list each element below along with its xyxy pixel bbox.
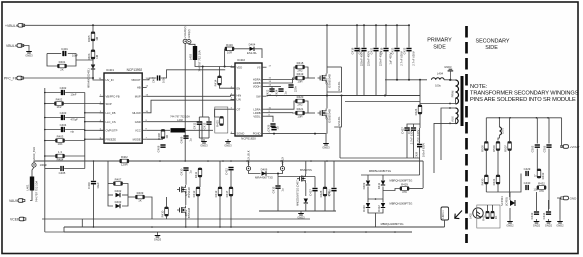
svg-text:GND2: GND2: [545, 223, 553, 227]
svg-text:C433: C433: [530, 212, 534, 219]
capacitor C425: [402, 47, 415, 66]
wire AUX top lead: [450, 107, 456, 109]
wire R416 left down: [224, 49, 226, 67]
svg-text:10nF: 10nF: [71, 93, 77, 97]
wire caps gnd join: [199, 137, 209, 139]
wire aux cluster right2: [122, 194, 128, 196]
svg-text:D409: D409: [362, 182, 366, 189]
svg-text:C415: C415: [271, 186, 275, 193]
svg-text:1M: 1M: [95, 54, 99, 59]
capacitor C419: [379, 47, 392, 64]
capacitor C416: [327, 189, 336, 196]
wire D406 to +VAUX: [266, 171, 283, 174]
wire R409 right: [145, 197, 153, 219]
svg-text:R409: R409: [137, 191, 144, 195]
wire rail to terminal: [248, 161, 250, 166]
wire sense caps top: [407, 124, 420, 127]
wire C434 up: [548, 200, 550, 211]
svg-text:470pF: 470pF: [71, 118, 79, 122]
svg-text:C411: C411: [193, 122, 197, 129]
svg-text:1u: 1u: [281, 188, 285, 192]
svg-text:C401: C401: [61, 47, 68, 51]
junction rails: [93, 226, 396, 233]
wire C421 down: [375, 52, 377, 96]
wire PRIM bottom to sense: [420, 103, 450, 105]
svg-text:C421: C421: [369, 47, 373, 54]
capacitor C412: [224, 168, 233, 175]
svg-text:744 797 752 10A: 744 797 752 10A: [35, 181, 39, 202]
wire R420 out: [305, 101, 309, 113]
svg-text:C429: C429: [524, 167, 531, 171]
svg-text:R405: R405: [87, 35, 91, 42]
svg-text:R403: R403: [57, 135, 64, 139]
ground GND3 above L404: [444, 65, 453, 80]
svg-text:1K: 1K: [494, 216, 498, 220]
capacitor C426: [266, 124, 279, 131]
svg-text:D412: D412: [377, 205, 381, 212]
svg-text:L501: L501: [501, 128, 505, 134]
svg-text:744 797 752 10A: 744 797 752 10A: [170, 115, 190, 119]
capacitor C411: [193, 122, 202, 129]
wire R507 up: [509, 118, 511, 141]
svg-text:C404: C404: [60, 123, 67, 127]
wire C506 up: [548, 118, 550, 144]
wire R402 right to IC: [64, 103, 105, 105]
wire C506 down: [548, 149, 550, 210]
transistor Q401 BSS138: [177, 185, 191, 198]
svg-text:GND3: GND3: [200, 143, 208, 147]
svg-text:C410: C410: [179, 168, 183, 175]
svg-text:VBULK: VBULK: [6, 44, 18, 48]
svg-text:C505: C505: [531, 145, 535, 152]
capacitor C420: [271, 128, 276, 130]
resistor R408: [157, 130, 169, 140]
svg-text:R418: R418: [297, 61, 304, 65]
resistor R507: [504, 142, 512, 152]
svg-text:VDDH: VDDH: [253, 85, 261, 89]
wire Q406 source: [305, 183, 307, 196]
resistor R406: [87, 50, 99, 60]
svg-text:+VOUT: +VOUT: [570, 145, 580, 149]
label MBR5H1008FT3G top: [369, 169, 391, 173]
op-amp IC401 NCP13992 LLC controller: [100, 68, 147, 143]
wire R416-D404: [234, 48, 250, 50]
ground GND3 below C411: [200, 139, 208, 147]
svg-text:C406: C406: [87, 182, 91, 189]
svg-text:C409: C409: [179, 136, 183, 143]
wire C404 right: [65, 129, 85, 131]
junction PFC_FB divider: [92, 77, 94, 79]
wire L401 to VAUX_BLK term: [32, 167, 34, 176]
wire VDDL to C426: [267, 116, 274, 122]
svg-text:C426: C426: [266, 124, 270, 131]
svg-text:L403: L403: [189, 53, 193, 60]
wire GND conn left: [557, 198, 560, 219]
label C403 value: [71, 118, 79, 122]
wire sense caps top2: [413, 124, 415, 127]
wire PFC_FB: [22, 77, 93, 79]
svg-text:OVP/OTP: OVP/OTP: [106, 128, 118, 132]
wire C418 down: [356, 52, 358, 96]
wire upper sense rail: [340, 157, 420, 159]
svg-text:R412: R412: [192, 190, 196, 197]
terminal +VAUX_BLK 2: [246, 150, 250, 170]
zener D407: [304, 199, 308, 204]
wire MODE to R408: [147, 138, 163, 140]
resistor R419: [296, 72, 305, 83]
svg-text:10R: 10R: [297, 115, 302, 119]
wire IC401 GND down: [147, 122, 202, 141]
wire cap bank drop 5: [396, 25, 398, 47]
wire SR diodes mid: [368, 187, 383, 200]
svg-text:+VBULK: +VBULK: [5, 24, 19, 28]
transformer primary winding PRIM: [451, 80, 459, 104]
capacitor C418: [350, 47, 363, 66]
wire VCEE drop to rail: [81, 219, 83, 227]
wire mid ground rail: [259, 210, 336, 212]
wire cap bank drop 3: [375, 25, 377, 47]
svg-text:C430: C430: [524, 181, 531, 185]
ground GND3 below PGND: [322, 141, 330, 149]
label D406b ES1JFL: [337, 116, 341, 126]
svg-text:NCP13992: NCP13992: [127, 68, 143, 72]
svg-text:2R2: 2R2: [297, 103, 303, 107]
svg-text:MBRQH1008FT3G: MBRQH1008FT3G: [390, 202, 413, 206]
wire AUX bottom lead: [450, 119, 456, 124]
wire C417 v: [314, 177, 316, 188]
wire SW node rail: [267, 95, 420, 97]
label MRA4007(D401): [87, 68, 91, 88]
label MBRQH1008FT3G 3: [381, 222, 404, 226]
svg-text:1u: 1u: [189, 170, 193, 174]
svg-text:HDRB: HDRB: [253, 81, 261, 85]
diode D401 MRA4007: [91, 65, 95, 70]
svg-text:C419: C419: [379, 47, 383, 54]
pin numbers IC401: [99, 78, 149, 139]
svg-text:GND3: GND3: [154, 237, 162, 241]
svg-text:ES1JFL: ES1JFL: [337, 116, 341, 126]
svg-text:R413: R413: [214, 190, 218, 197]
resistor R433b: [537, 169, 545, 179]
wire sec top rail: [486, 117, 561, 119]
junction D406 out: [277, 173, 279, 175]
capacitor C404: [60, 123, 67, 132]
resistor R413: [214, 187, 222, 197]
wire R418 out: [305, 67, 309, 78]
capacitor C505: [531, 145, 540, 152]
svg-text:R506: R506: [492, 145, 496, 152]
capacitor C407: [158, 75, 160, 80]
svg-text:GND(2): GND(2): [187, 29, 191, 38]
wire C413 bot: [208, 125, 210, 138]
svg-text:MLOW: MLOW: [132, 111, 141, 115]
wire C402 leads: [45, 92, 61, 94]
wire R404 left: [45, 155, 56, 157]
wire C402 right to bus2: [65, 92, 85, 94]
label MM3Z16VST1G D407: [297, 179, 300, 206]
svg-text:PRIM: PRIM: [451, 90, 455, 97]
wire rail to terminal 2: [282, 161, 284, 166]
wire D401 to HV_IN: [93, 70, 104, 80]
wire sense rail drop to SR: [419, 158, 421, 175]
svg-text:C428: C428: [407, 127, 411, 134]
wire R403 left: [45, 140, 56, 142]
resistor R410: [161, 207, 169, 217]
wire R428 down: [324, 196, 326, 211]
svg-text:SECONDARY: SECONDARY: [475, 38, 509, 44]
wire Q408 parallel branch: [334, 96, 341, 128]
svg-text:R429: R429: [401, 183, 408, 187]
wire VBOOT to C407: [147, 78, 157, 80]
wire C410 down: [185, 171, 187, 185]
wire Q401-Q402: [185, 195, 187, 206]
svg-text:MRA4007(D401): MRA4007(D401): [87, 68, 91, 88]
connector GND: [561, 196, 577, 200]
wire fb caps left bus: [520, 174, 522, 188]
capacitor C423: [390, 47, 403, 66]
svg-text:10K: 10K: [58, 142, 63, 146]
diode D406: [255, 167, 273, 179]
svg-text:GND3: GND3: [224, 143, 232, 147]
connector PFC_FB: [4, 76, 24, 80]
wire C425 down to res rail: [408, 52, 410, 80]
svg-text:MRA4007T3G: MRA4007T3G: [255, 176, 273, 180]
arrow at LIN01: [455, 211, 462, 219]
wire C406 down: [93, 185, 95, 228]
svg-text:SKIP: SKIP: [106, 102, 112, 106]
svg-text:R430: R430: [480, 178, 484, 185]
wire R417 down: [230, 196, 232, 227]
resistor R418: [296, 61, 305, 72]
wire SR diodes down2: [382, 199, 384, 203]
connector VCEE: [10, 217, 26, 221]
wire C407 right up: [161, 70, 225, 78]
transformer core: [461, 76, 464, 126]
wire SW rail to R424: [419, 80, 421, 105]
terminal GND(2): [187, 29, 191, 43]
svg-text:GND3: GND3: [322, 145, 330, 149]
svg-text:VDDL: VDDL: [253, 114, 261, 118]
resistor R407: [114, 178, 123, 186]
label D405 ES1JFL: [337, 81, 341, 91]
svg-text:GS66504B: GS66504B: [328, 74, 332, 88]
svg-text:GND: GND: [135, 120, 141, 124]
junction sec top: [499, 117, 549, 119]
svg-text:MODE: MODE: [133, 137, 141, 141]
wire rail to LIN01: [444, 220, 446, 227]
svg-text:GND3: GND3: [297, 215, 305, 219]
svg-text:VAUX: VAUX: [9, 199, 19, 203]
connector VAUX: [9, 199, 25, 203]
wire lower rail B: [64, 231, 412, 233]
wire R405 to R406: [92, 41, 94, 50]
wire R431 up: [497, 151, 499, 176]
svg-text:L404: L404: [437, 72, 444, 76]
wire C430 down: [363, 52, 365, 96]
wire Q407 source to SW: [326, 83, 328, 96]
transformer pin dots: [449, 79, 451, 124]
svg-text:R431: R431: [492, 178, 496, 185]
label C401 value 10nF: [72, 54, 78, 58]
wire C403 right: [65, 117, 85, 119]
svg-text:R417: R417: [225, 190, 229, 197]
svg-text:MM3Z16VST1G (D407): MM3Z16VST1G (D407): [297, 179, 300, 206]
wire C429s to rail: [419, 148, 421, 159]
label C429 value: [534, 174, 537, 178]
diode D412: [377, 203, 385, 212]
svg-text:GND3: GND3: [25, 53, 33, 57]
shunt regulator IC403 NCP431: [510, 197, 515, 206]
svg-text:10R: 10R: [227, 50, 232, 54]
wire R417 up: [230, 171, 232, 188]
ground GND2 a: [506, 219, 514, 227]
capacitor C408: [156, 145, 165, 152]
svg-text:220n: 220n: [294, 85, 298, 92]
svg-text:R416: R416: [226, 43, 233, 47]
wire aux rail drop to R429: [422, 161, 424, 188]
wire PGND rail: [267, 134, 327, 141]
svg-text:+VAUX_BLK: +VAUX_BLK: [247, 150, 251, 165]
resistor R414: [214, 76, 222, 86]
svg-text:R402: R402: [121, 155, 128, 159]
svg-text:1M: 1M: [95, 36, 99, 41]
svg-text:LDRA: LDRA: [253, 107, 260, 111]
svg-text:n/p: n/p: [71, 130, 75, 134]
svg-text:ES1JFL: ES1JFL: [337, 81, 341, 91]
capacitor C413: [202, 122, 211, 129]
wire C411 bot: [198, 125, 200, 138]
wire cap tops: [199, 116, 209, 118]
wire aux cluster left2: [108, 183, 113, 185]
svg-text:EN: EN: [237, 86, 241, 90]
wire R413 down: [219, 196, 221, 227]
ground GND2 d: [556, 219, 564, 227]
svg-text:C423: C423: [390, 47, 394, 54]
svg-text:VS: VS: [257, 65, 261, 69]
resistor R425 on aux rail: [120, 155, 129, 166]
inductor L403: [189, 46, 202, 72]
wire aux cluster right: [122, 184, 128, 207]
wire C413 top: [208, 117, 210, 121]
capacitor C428: [407, 127, 420, 145]
wire VDDH to caps: [267, 86, 282, 88]
wire R507 down: [509, 151, 511, 198]
capacitor C402: [60, 86, 67, 95]
wire SR diodes down: [367, 199, 369, 203]
svg-text:VCEE: VCEE: [10, 218, 20, 222]
wire R404 right: [65, 155, 85, 157]
wire R410 up: [166, 197, 168, 207]
inductor L401: [26, 177, 39, 203]
wire VBULK to ground: [21, 46, 29, 50]
connector VBULK: [6, 44, 24, 48]
svg-text:NCP431: NCP431: [500, 196, 504, 206]
svg-text:L401: L401: [26, 184, 30, 191]
wire VCC to L402: [147, 129, 170, 131]
svg-text:BSS138: BSS138: [187, 187, 191, 198]
svg-text:GND3: GND3: [444, 65, 452, 69]
capacitor C429 fb: [524, 167, 531, 176]
wire Q406 drain: [305, 161, 307, 174]
wire sec gnd bus: [509, 208, 511, 219]
coil L404: [432, 72, 445, 88]
wire R406 to D401: [92, 59, 94, 64]
wire AUX top down: [441, 108, 450, 160]
wire C406 up: [93, 161, 95, 181]
svg-text:2.7nF 630V: 2.7nF 630V: [412, 51, 416, 66]
svg-text:PGND: PGND: [253, 132, 261, 136]
capacitor C415: [271, 186, 284, 193]
resistor R404: [56, 150, 65, 161]
wire GND2 term to L403: [189, 44, 195, 46]
svg-text:C402: C402: [60, 86, 67, 90]
resistor R417: [225, 187, 233, 197]
svg-text:IC401: IC401: [106, 68, 114, 72]
diode D411: [377, 181, 385, 190]
junction gate net: [277, 173, 279, 175]
wire R424 down: [419, 114, 421, 128]
resistor R424: [414, 105, 422, 115]
svg-text:HB: HB: [137, 86, 141, 90]
svg-text:L402: L402: [177, 118, 183, 122]
connector +VBULK: [5, 24, 25, 28]
resistor R431: [492, 175, 500, 185]
wire SR diodes up2: [382, 175, 384, 180]
wire LDRA to R420: [267, 101, 296, 109]
wire Q408 source down: [326, 118, 328, 134]
wire gnd drop: [157, 232, 159, 233]
wire PFC_FB junction to divider: [92, 64, 94, 78]
svg-text:R407: R407: [115, 178, 122, 182]
label C429 100nF 630V: [415, 143, 426, 158]
wire bus2 to LLC_CS: [85, 121, 104, 123]
capacitor C427: [400, 127, 413, 145]
wire Q408 area vertical: [339, 127, 341, 158]
wire C417 down: [314, 192, 316, 212]
transistor Q402 BSS138: [177, 206, 191, 219]
wire C401-R401 right loop: [67, 54, 77, 67]
svg-text:U402: U402: [470, 213, 473, 219]
svg-text:R401: R401: [59, 60, 66, 64]
svg-text:NOTE:: NOTE:: [470, 84, 488, 90]
ground GND2 c: [545, 219, 553, 227]
svg-text:100nF 630V: 100nF 630V: [422, 143, 426, 157]
svg-text:OT: OT: [237, 107, 241, 111]
wire bus2 to FREEZE: [85, 138, 104, 140]
wire D404 right down: [254, 49, 262, 58]
svg-text:R507: R507: [504, 145, 508, 152]
resistor R438: [491, 211, 498, 219]
svg-text:BSS138: BSS138: [187, 207, 191, 218]
wire PRIM top lead: [450, 79, 456, 81]
wire L501 down: [498, 135, 499, 141]
svg-text:HV_IN: HV_IN: [106, 78, 114, 82]
wire L402 to caps: [186, 129, 214, 131]
svg-text:PRIMARY: PRIMARY: [427, 38, 452, 44]
svg-text:TRANSFORMER SECONDARY WINDINGS: TRANSFORMER SECONDARY WINDINGS: [470, 91, 579, 97]
svg-text:SW: SW: [256, 94, 261, 98]
diode D409: [362, 181, 370, 190]
wire R412 down: [197, 196, 199, 227]
wire OT pin down to R415 box: [215, 109, 231, 117]
capacitor C430: [357, 47, 370, 66]
svg-text:R432: R432: [538, 182, 545, 186]
capacitor C401: [61, 47, 68, 56]
terminal +VAUX: [280, 157, 284, 171]
diode D410: [362, 203, 370, 212]
svg-text:D411: D411: [377, 182, 381, 189]
svg-text:R402: R402: [56, 98, 63, 102]
